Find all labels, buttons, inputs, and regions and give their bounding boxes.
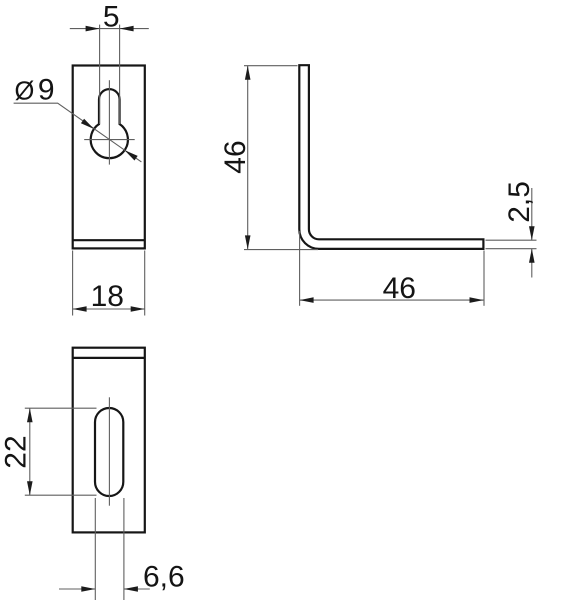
thickness dimension 2,5 upper dimension line — [531, 188, 533, 240]
side view dimension 46 vertical extension line top — [244, 65, 298, 67]
dimension 5 extension line right — [119, 25, 121, 124]
side view L profile outline — [299, 65, 483, 249]
bottom view bend line — [73, 357, 145, 359]
oblong slot centerline — [108, 397, 110, 505]
side view dimension 46 horizontal dimension line — [300, 299, 484, 301]
dimension 22 extension line top — [25, 407, 97, 409]
keyhole horizontal centerline — [84, 139, 135, 141]
side view dimension 46 vertical bottom arrow — [245, 235, 251, 249]
dimension 5 extension line left — [99, 25, 101, 124]
thickness dimension 2,5 upper arrow — [529, 226, 535, 240]
dimension 18 right arrow — [131, 306, 145, 312]
dimension text 6,6 — [143, 561, 185, 594]
side view dimension text 46 vertical — [219, 140, 252, 173]
dimension 22 dimension line — [29, 408, 31, 495]
side view dimension 46 horizontal extension line left — [299, 231, 301, 306]
bottom view plate outline — [73, 348, 145, 533]
dimension 5 dimension line — [70, 28, 149, 30]
dimension 22 top arrow — [27, 408, 33, 422]
svg-text:6,6: 6,6 — [143, 561, 185, 594]
diameter leader arrow upper — [81, 119, 94, 129]
dimension 6,6 extension line left — [94, 498, 96, 600]
thickness dimension 2,5 lower arrow — [529, 249, 535, 263]
dimension 5 left arrow — [86, 26, 100, 32]
side view dimension 46 horizontal extension line right — [483, 251, 485, 306]
dimension 5 right arrow — [120, 26, 134, 32]
svg-text:18: 18 — [91, 280, 124, 313]
dimension text 5 — [103, 0, 120, 33]
svg-text:2,5: 2,5 — [503, 181, 536, 223]
svg-text:5: 5 — [103, 0, 120, 33]
dimension 6,6 left arrow — [81, 586, 95, 592]
dimension 22 bottom arrow — [27, 481, 33, 495]
side view dimension text 46 horizontal — [383, 272, 416, 305]
dimension 22 extension line bottom — [25, 494, 97, 496]
side view dimension 46 vertical extension line bottom — [244, 249, 318, 251]
dimension 18 dimension line — [73, 308, 145, 310]
dimension text 18 — [91, 280, 124, 313]
dimension 18 extension line left — [72, 251, 74, 316]
dimension 6,6 extension line right — [123, 498, 125, 600]
thickness dimension 2,5 lower dimension line — [531, 249, 533, 278]
oblong slot outline — [95, 408, 123, 496]
dimension text diameter 9 — [15, 74, 55, 107]
front view plate outline — [73, 66, 145, 249]
thickness dimension text 2,5 — [503, 181, 536, 223]
thickness dimension 2,5 extension line top — [486, 239, 537, 241]
front view bend line — [73, 239, 145, 241]
dimension 18 left arrow — [73, 306, 87, 312]
side view dimension 46 vertical dimension line — [247, 66, 249, 250]
keyhole vertical centerline — [108, 80, 110, 164]
svg-text:22: 22 — [0, 435, 33, 468]
dimension text 22 — [0, 435, 33, 468]
diameter leader arrow lower — [125, 150, 138, 160]
thickness dimension 2,5 extension line bottom — [486, 248, 537, 250]
dimension 6,6 left dimension line — [59, 588, 95, 590]
svg-text:46: 46 — [383, 272, 416, 305]
dimension 6,6 right arrow — [124, 586, 138, 592]
diameter leader line — [14, 103, 142, 162]
side view dimension 46 vertical top arrow — [245, 66, 251, 80]
svg-text:46: 46 — [219, 140, 252, 173]
dimension 6,6 right dimension line — [124, 588, 150, 590]
dimension 18 extension line right — [144, 251, 146, 316]
keyhole slot outline — [91, 89, 128, 158]
side view dimension 46 horizontal right arrow — [470, 297, 484, 303]
side view dimension 46 horizontal left arrow — [300, 297, 314, 303]
